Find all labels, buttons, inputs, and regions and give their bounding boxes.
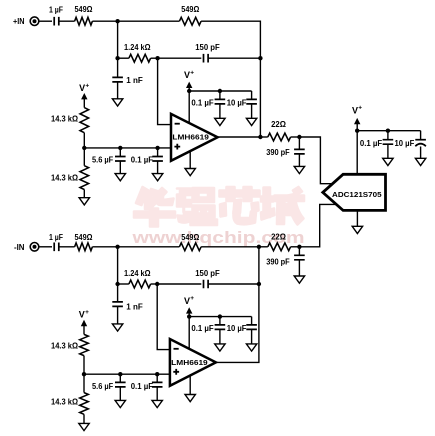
ground	[215, 344, 225, 351]
svg-text:549Ω: 549Ω	[75, 233, 94, 242]
node	[386, 129, 390, 133]
node	[297, 245, 301, 249]
svg-text:390 pF: 390 pF	[266, 258, 290, 267]
wire to ADC input B	[299, 204, 337, 246]
wire	[201, 246, 259, 248]
wire J3 to inverting input	[158, 58, 171, 124]
node output B junction	[257, 245, 261, 249]
ground	[79, 423, 89, 430]
svg-text:549Ω: 549Ω	[181, 233, 200, 242]
svg-text:+: +	[85, 82, 89, 89]
wire supply rail ADC	[357, 131, 420, 175]
svg-text:LMH6619: LMH6619	[172, 133, 209, 142]
capacitor C3 1nF	[112, 58, 143, 99]
wire	[39, 246, 52, 248]
svg-text:390 pF: 390 pF	[266, 148, 290, 157]
svg-text:1.24 kΩ: 1.24 kΩ	[124, 269, 151, 278]
wire J1b to J2b	[117, 247, 119, 284]
ground	[152, 400, 162, 407]
node divider A	[82, 146, 86, 150]
svg-text:1 nF: 1 nF	[126, 302, 143, 311]
resistor R1 549ohm	[75, 5, 94, 25]
svg-text:-IN: -IN	[14, 243, 25, 252]
svg-text:549Ω: 549Ω	[181, 5, 200, 14]
capacitor C17 0.1uF ADC	[360, 131, 393, 159]
svg-text:LMH6619: LMH6619	[171, 358, 208, 367]
svg-text:5.6 µF: 5.6 µF	[92, 156, 113, 165]
resistor R8 549ohm feedback	[179, 233, 201, 251]
resistor R12 14.3k	[51, 374, 88, 423]
capacitor C6 0.1uF bypass A	[191, 91, 225, 118]
capacitor C12 1nF	[112, 284, 143, 324]
svg-text:10 µF: 10 µF	[227, 98, 247, 107]
ground	[115, 174, 125, 181]
wire ADC ground pin	[356, 210, 358, 226]
node	[187, 314, 191, 318]
svg-text:22Ω: 22Ω	[271, 120, 286, 129]
input terminal +IN	[30, 17, 39, 26]
wire supply rail A	[189, 91, 251, 125]
ground	[79, 198, 89, 205]
node	[218, 314, 222, 318]
capacitor C15 0.1uF bypass B	[191, 317, 225, 344]
svg-text:1 µF: 1 µF	[49, 5, 63, 14]
capacitor C10 390pF	[266, 247, 305, 276]
node	[218, 89, 222, 93]
svg-text:14.3 kΩ: 14.3 kΩ	[51, 341, 79, 350]
ground	[352, 226, 362, 233]
wire feedback B	[216, 247, 259, 363]
wire	[291, 136, 300, 138]
resistor R2 549ohm feedback	[179, 5, 201, 25]
ground	[246, 344, 256, 351]
svg-text:ADC121S705: ADC121S705	[332, 190, 382, 199]
svg-text:+: +	[85, 309, 89, 316]
capacitor C9 1uF	[49, 233, 63, 251]
wire	[118, 57, 129, 59]
ground	[112, 324, 122, 331]
wire	[208, 57, 260, 59]
svg-text:1 µF: 1 µF	[49, 233, 63, 242]
supply V+ divider A	[79, 82, 89, 107]
wire to ADC input A	[299, 137, 334, 184]
svg-text:V: V	[184, 70, 190, 80]
svg-text:549Ω: 549Ω	[75, 5, 94, 14]
svg-text:V: V	[184, 296, 190, 306]
wire op-amp B ground pin	[189, 376, 191, 394]
ground	[112, 99, 122, 106]
wire	[92, 20, 117, 22]
node	[155, 372, 159, 376]
svg-text:10 µF: 10 µF	[227, 324, 247, 333]
capacitor C16 10uF bypass B	[227, 317, 257, 344]
svg-text:+: +	[190, 69, 194, 76]
node	[355, 129, 359, 133]
wire	[118, 246, 180, 248]
ground	[185, 169, 195, 176]
capacitor C14 0.1uF	[131, 374, 163, 400]
resistor R5 14.3k	[51, 148, 89, 198]
svg-text:1 nF: 1 nF	[126, 76, 143, 85]
wire	[118, 20, 180, 22]
op-amp U2 LMH6619	[170, 339, 216, 386]
wire	[157, 283, 201, 285]
ground	[215, 118, 225, 125]
svg-text:5.6 µF: 5.6 µF	[92, 382, 113, 391]
svg-text:V: V	[79, 83, 85, 93]
node	[155, 146, 159, 150]
wire	[208, 283, 259, 285]
node output A	[258, 135, 262, 139]
svg-text:0.1 µF: 0.1 µF	[191, 324, 213, 333]
wire divider to noninverting input B	[84, 373, 170, 375]
svg-text:V: V	[79, 310, 85, 320]
wire	[291, 246, 300, 248]
node J1b	[115, 245, 119, 249]
resistor R3 1.24k	[124, 43, 151, 62]
watermark text 华强芯城	[134, 187, 304, 227]
ground	[383, 158, 393, 165]
wire J1 to J2	[117, 21, 119, 58]
resistor R7 549ohm	[75, 233, 94, 251]
resistor R6 22ohm	[268, 120, 291, 141]
wire	[59, 246, 75, 248]
wire	[151, 57, 158, 59]
svg-text:1.24 kΩ: 1.24 kΩ	[124, 43, 151, 52]
wire op-amp A ground pin	[189, 151, 191, 169]
node J3b	[155, 282, 159, 286]
wire	[39, 20, 52, 22]
wire feedback top	[201, 21, 260, 137]
node divider B	[82, 372, 86, 376]
wire	[260, 136, 267, 138]
wire	[83, 356, 85, 375]
svg-text:14.3 kΩ: 14.3 kΩ	[51, 173, 79, 182]
capacitor C1 1uF	[49, 5, 63, 25]
wire	[92, 246, 117, 248]
ground	[115, 400, 125, 407]
svg-text:0.1 µF: 0.1 µF	[191, 98, 213, 107]
wire	[83, 133, 85, 148]
svg-text:150 pF: 150 pF	[195, 269, 220, 278]
wire	[158, 57, 202, 59]
capacitor C2 150pF	[195, 43, 220, 63]
svg-text:150 pF: 150 pF	[195, 43, 220, 52]
svg-text:0.1 µF: 0.1 µF	[360, 139, 382, 148]
wire	[59, 20, 75, 22]
svg-text:+: +	[190, 295, 194, 302]
resistor R10 1.24k	[124, 269, 151, 288]
node	[187, 89, 191, 93]
node J2	[115, 56, 119, 60]
supply V+ op-amp A	[184, 69, 194, 91]
svg-text:14.3 kΩ: 14.3 kΩ	[51, 114, 79, 123]
svg-text:+IN: +IN	[13, 17, 25, 26]
ground	[294, 166, 304, 173]
resistor R4 14.3k	[51, 108, 89, 133]
svg-text:10 µF: 10 µF	[395, 139, 415, 148]
supply V+ divider B	[79, 309, 89, 334]
resistor R11 14.3k	[51, 334, 88, 355]
wire	[259, 246, 268, 248]
svg-text:+: +	[358, 105, 362, 112]
resistor R9 22ohm	[268, 232, 291, 250]
wire divider to noninverting input	[84, 147, 171, 149]
svg-text:V: V	[352, 105, 358, 115]
capacitor C18 10uF ADC	[395, 131, 426, 159]
supply V+ op-amp B	[184, 295, 194, 316]
svg-text:22Ω: 22Ω	[271, 232, 286, 241]
capacitor C11 150pF	[195, 269, 220, 288]
svg-text:0.1 µF: 0.1 µF	[131, 382, 153, 391]
node feedback-150pF	[258, 56, 262, 60]
node feedback B	[257, 282, 261, 286]
capacitor C4 5.6uF	[92, 148, 126, 174]
ground	[185, 395, 195, 402]
capacitor C7 10uF bypass A	[227, 91, 257, 118]
ground	[152, 174, 162, 181]
wire op-amp A output	[218, 136, 261, 138]
svg-text:14.3 kΩ: 14.3 kΩ	[51, 398, 79, 407]
capacitor C5 0.1uF	[131, 148, 163, 174]
ground	[415, 158, 425, 165]
node J2b	[115, 282, 119, 286]
adc U3 ADC121S705	[323, 174, 386, 210]
wire	[118, 283, 129, 285]
node	[297, 135, 301, 139]
wire	[151, 283, 158, 285]
op-amp U1 LMH6619	[171, 114, 218, 161]
capacitor C13 5.6uF	[92, 374, 126, 400]
node	[118, 146, 122, 150]
node J3	[155, 56, 159, 60]
wire supply rail B	[189, 317, 251, 351]
input terminal -IN	[30, 243, 39, 252]
ground	[294, 276, 304, 283]
supply V+ ADC	[352, 105, 362, 131]
svg-text:0.1 µF: 0.1 µF	[131, 156, 153, 165]
capacitor C8 390pF	[266, 137, 305, 166]
node J1	[115, 19, 119, 23]
ground	[246, 118, 256, 125]
node	[118, 372, 122, 376]
wire J3b to inverting input	[157, 284, 170, 350]
